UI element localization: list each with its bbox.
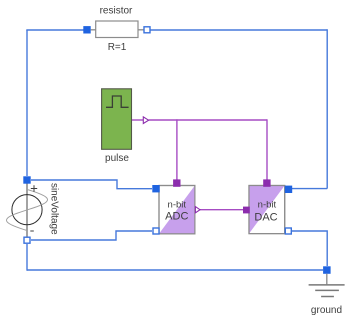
resistor pin p (filled square) xyxy=(83,26,90,33)
DAC pin bottom-right (open square) xyxy=(285,228,291,234)
op-amp U1: n-bit ADC xyxy=(159,186,195,234)
wire: left bottom vertical up to sineVoltage minus pin xyxy=(26,244,28,271)
ADC pin bottom-left (open square) xyxy=(153,228,159,234)
wire: DAC bottom-right pin to ground junction xyxy=(292,231,327,266)
minus sign xyxy=(30,230,34,232)
svg-text:ground: ground xyxy=(311,305,342,316)
wire: pulse clock bus horizontal xyxy=(149,119,267,121)
wire: right rail down to DAC top-right level xyxy=(326,29,328,188)
wire: sineVoltage plus to ADC top-left pin xyxy=(31,180,152,189)
wire: sineVoltage minus to ADC bottom-left pin xyxy=(31,231,152,240)
sineVoltage pin n (open square) xyxy=(24,237,30,243)
svg-text:n-bit: n-bit xyxy=(258,199,277,210)
svg-text:pulse: pulse xyxy=(105,153,129,164)
wire: top left horizontal to resistor xyxy=(26,29,84,31)
op-amp U2: n-bit DAC xyxy=(249,186,285,234)
ADC trigger pin (purple square) xyxy=(173,179,180,186)
pulse block xyxy=(102,89,132,150)
wire: clock drop to ADC trigger xyxy=(176,119,178,179)
ground xyxy=(309,274,345,297)
svg-text:R=1: R=1 xyxy=(108,42,127,53)
ADC pin top-left (filled square) xyxy=(152,185,159,192)
svg-text:resistor: resistor xyxy=(100,6,133,17)
wire: resistor right to top-right corner xyxy=(150,29,327,31)
plus sign xyxy=(31,185,37,191)
svg-text:n-bit: n-bit xyxy=(168,200,187,211)
wire: to DAC top-right pin xyxy=(292,188,327,190)
sineVoltage pin p (filled square) xyxy=(23,176,30,183)
wire: clock drop to DAC trigger xyxy=(266,119,268,179)
pulse output triangle xyxy=(143,117,148,124)
svg-text:sineVoltage: sineVoltage xyxy=(49,183,60,235)
wire: pulse output to triangle xyxy=(132,119,144,121)
DAC pin top-right (filled square) xyxy=(285,186,292,193)
ground junction (filled square) xyxy=(323,266,331,274)
ADC output triangle xyxy=(195,207,200,213)
DAC digital in pin (purple square) xyxy=(243,207,250,214)
resistor R1 xyxy=(91,21,144,38)
svg-text:DAC: DAC xyxy=(254,212,277,224)
wire: bottom rail from ground junction to left xyxy=(27,269,323,271)
wire: ADC digital out to DAC digital in xyxy=(200,209,243,211)
DAC trigger pin (purple square) xyxy=(263,179,270,186)
wire: left rail from top corner to sineVoltage plus pin xyxy=(26,30,28,176)
svg-text:ADC: ADC xyxy=(165,211,188,223)
sineVoltage source V1 xyxy=(7,183,48,237)
resistor pin n (open square) xyxy=(144,27,150,33)
